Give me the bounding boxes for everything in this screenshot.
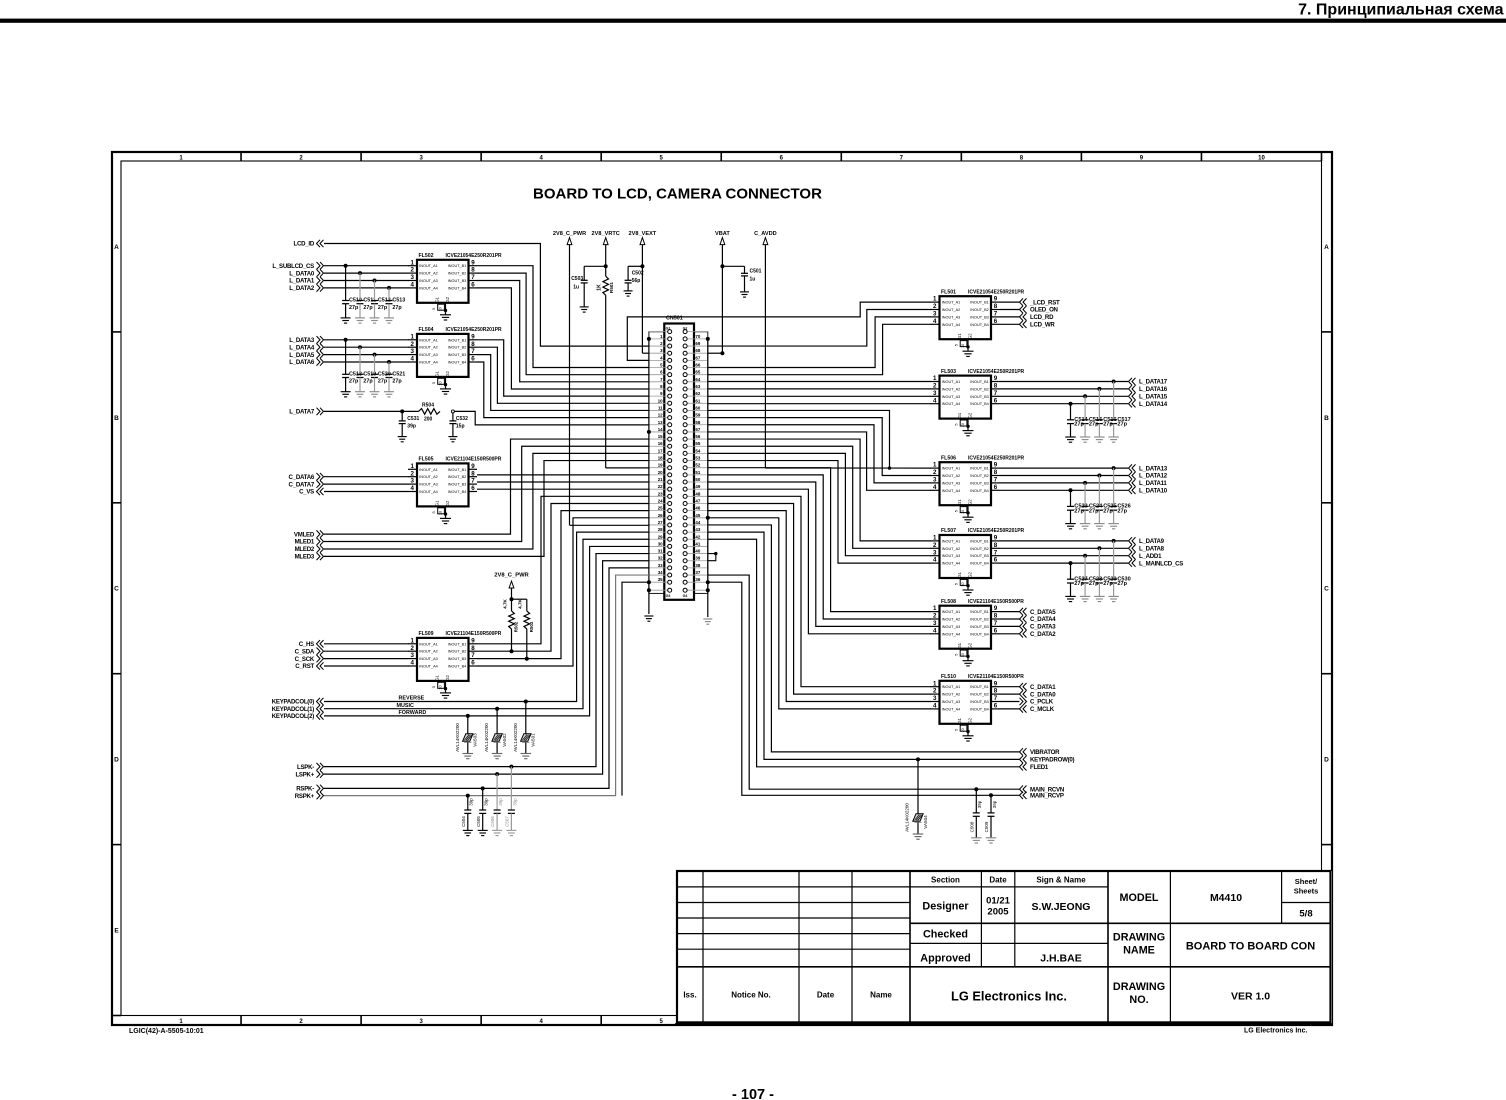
svg-text:INOUT_B4: INOUT_B4 bbox=[448, 665, 467, 669]
svg-text:_LCD_RST: _LCD_RST bbox=[1029, 299, 1060, 306]
svg-text:Approved: Approved bbox=[920, 953, 970, 965]
svg-text:C_HS: C_HS bbox=[299, 641, 314, 648]
svg-text:G1: G1 bbox=[957, 333, 962, 339]
node net at pin4 and FL501 input bbox=[627, 302, 931, 360]
svg-text:3: 3 bbox=[411, 348, 415, 355]
svg-text:L_DATA8: L_DATA8 bbox=[1139, 546, 1165, 553]
filter array FL504 ICVE21054E250R201PR bbox=[408, 327, 502, 386]
filter array FL509 ICVE21104E150R500PR bbox=[408, 631, 502, 690]
svg-text:R503: R503 bbox=[529, 621, 534, 632]
ground for C506 bbox=[492, 829, 502, 831]
svg-text:4: 4 bbox=[411, 356, 415, 363]
wire L_DATA12 bbox=[1000, 475, 1129, 477]
svg-text:10: 10 bbox=[438, 511, 442, 515]
svg-text:C521: C521 bbox=[392, 371, 405, 377]
svg-text:KEYPADCOL(0): KEYPADCOL(0) bbox=[272, 699, 314, 706]
svg-text:G1: G1 bbox=[435, 674, 440, 680]
svg-text:27p: 27p bbox=[1074, 422, 1084, 428]
svg-text:2005: 2005 bbox=[987, 907, 1009, 918]
CN501 right ground bus bbox=[706, 337, 710, 617]
svg-text:INOUT_A4: INOUT_A4 bbox=[942, 632, 961, 636]
svg-text:5: 5 bbox=[955, 344, 959, 346]
capacitor C506 39p bbox=[490, 774, 503, 830]
label REVERSE MUSIC FORWARD bbox=[397, 696, 427, 716]
svg-text:9: 9 bbox=[471, 637, 475, 644]
wire FL508 output C_DATA5 bbox=[1000, 611, 1020, 613]
svg-text:4.7K: 4.7K bbox=[502, 598, 507, 608]
wire 2V8_VEXT rail to pin3 bbox=[641, 251, 643, 353]
svg-text:68: 68 bbox=[695, 348, 700, 353]
svg-text:5/8: 5/8 bbox=[1299, 909, 1312, 920]
svg-text:LG Electronics Inc.: LG Electronics Inc. bbox=[951, 989, 1067, 1004]
capacitor C519 27p bbox=[357, 345, 377, 392]
filter array FL503 ICVE21054E250R201PR bbox=[931, 369, 1025, 428]
svg-text:Designer: Designer bbox=[922, 901, 969, 913]
wire VMLED to pin 15 bbox=[324, 439, 649, 534]
wire 2V8_VEXT into pin3 bbox=[642, 352, 649, 354]
svg-text:C_DATA6: C_DATA6 bbox=[289, 474, 315, 481]
svg-text:5: 5 bbox=[955, 424, 959, 426]
svg-text:FL501: FL501 bbox=[941, 289, 956, 295]
ground for C518 bbox=[341, 391, 351, 393]
wire RSPK+ to pin 34 bbox=[324, 575, 649, 796]
wire RSPK- to pin 33 bbox=[324, 568, 649, 789]
svg-text:A: A bbox=[114, 244, 119, 251]
svg-text:INOUT_A4: INOUT_A4 bbox=[419, 665, 438, 669]
svg-text:NO.: NO. bbox=[1129, 994, 1148, 1006]
svg-text:INOUT_B1: INOUT_B1 bbox=[448, 264, 467, 268]
svg-text:INOUT_B3: INOUT_B3 bbox=[448, 657, 467, 661]
svg-text:C_DATA0: C_DATA0 bbox=[1030, 691, 1056, 698]
wire L_DATA17 bbox=[1000, 381, 1129, 383]
svg-text:27: 27 bbox=[658, 520, 663, 525]
svg-text:VMLED: VMLED bbox=[294, 531, 315, 538]
ground for C508 bbox=[971, 837, 982, 839]
ground for C527 bbox=[1065, 595, 1076, 597]
svg-text:INOUT_B3: INOUT_B3 bbox=[970, 315, 989, 319]
svg-text:INOUT_B1: INOUT_B1 bbox=[970, 539, 989, 543]
svg-text:4: 4 bbox=[411, 282, 415, 289]
svg-text:14: 14 bbox=[658, 427, 663, 432]
svg-text:200: 200 bbox=[424, 417, 433, 423]
wire L_DATA10 bbox=[1000, 489, 1129, 491]
svg-text:19: 19 bbox=[658, 463, 663, 468]
varistor VA503 AVL14K02200 bbox=[455, 716, 478, 754]
ground for C530 bbox=[1108, 595, 1119, 597]
svg-text:C_SCK: C_SCK bbox=[295, 656, 315, 663]
ground for C512 bbox=[370, 317, 380, 319]
wire C_RST to FL509 pin 4 bbox=[324, 665, 409, 667]
svg-text:INOUT_A4: INOUT_A4 bbox=[942, 323, 961, 327]
svg-text:5: 5 bbox=[432, 686, 436, 688]
svg-text:39: 39 bbox=[695, 556, 700, 561]
svg-text:ICVE21104E150R500PR: ICVE21104E150R500PR bbox=[446, 457, 502, 463]
svg-text:C501: C501 bbox=[750, 269, 762, 275]
svg-text:INOUT_A2: INOUT_A2 bbox=[419, 272, 438, 276]
capacitor C503 1u bbox=[584, 265, 606, 267]
wire L_DATA11 bbox=[1000, 482, 1129, 484]
svg-text:G2: G2 bbox=[967, 717, 972, 723]
wire C_VS to FL505 pin 4 bbox=[324, 491, 409, 493]
svg-text:9: 9 bbox=[994, 535, 998, 542]
svg-text:B: B bbox=[1324, 415, 1329, 422]
svg-text:21: 21 bbox=[658, 477, 663, 482]
filter array FL502 ICVE21054E250R201PR bbox=[408, 253, 502, 312]
svg-text:Notice No.: Notice No. bbox=[731, 991, 771, 1000]
wire VBAT rail to pin68 bbox=[721, 251, 723, 353]
svg-text:INOUT_A3: INOUT_A3 bbox=[419, 279, 438, 283]
svg-text:INOUT_B3: INOUT_B3 bbox=[970, 481, 989, 485]
svg-text:C503: C503 bbox=[571, 276, 583, 282]
capacitor C527 27p bbox=[1067, 561, 1088, 596]
svg-text:FL503: FL503 bbox=[941, 369, 956, 375]
wire L_DATA15 bbox=[1000, 395, 1129, 397]
svg-text:27p: 27p bbox=[1074, 508, 1084, 514]
svg-text:1u: 1u bbox=[573, 285, 579, 291]
wire FL510 output C_DATA1 bbox=[1000, 686, 1020, 688]
svg-text:INOUT_A2: INOUT_A2 bbox=[942, 618, 961, 622]
frame row ticks and letters bbox=[112, 331, 121, 333]
capacitor C525 27p bbox=[1096, 474, 1117, 524]
svg-text:C: C bbox=[114, 586, 119, 593]
node R504 right terminal bbox=[451, 410, 454, 413]
ground for C514 bbox=[1065, 436, 1076, 438]
svg-text:3: 3 bbox=[933, 477, 937, 484]
capacitor C508 39p bbox=[969, 789, 982, 838]
svg-text:8: 8 bbox=[994, 542, 998, 549]
svg-text:45: 45 bbox=[695, 513, 700, 518]
svg-text:ICVE21104E150R500PR: ICVE21104E150R500PR bbox=[446, 631, 502, 637]
svg-text:ICVE21054E250R201PR: ICVE21054E250R201PR bbox=[968, 289, 1025, 295]
svg-text:15p: 15p bbox=[456, 423, 465, 429]
wire L_DATA13 bbox=[1000, 467, 1129, 469]
svg-text:64: 64 bbox=[695, 377, 700, 382]
svg-text:INOUT_B4: INOUT_B4 bbox=[970, 402, 989, 406]
wire VBAT junction at pin68 bbox=[708, 352, 723, 354]
svg-text:54: 54 bbox=[695, 448, 700, 453]
svg-text:3: 3 bbox=[411, 478, 415, 485]
ground for C520 bbox=[370, 391, 380, 393]
svg-text:L_DATA2: L_DATA2 bbox=[289, 285, 315, 292]
svg-text:3: 3 bbox=[933, 549, 937, 556]
wires pins 56-53 to FL507 inputs bbox=[708, 439, 931, 541]
svg-text:1: 1 bbox=[411, 333, 415, 340]
svg-text:9: 9 bbox=[994, 605, 998, 612]
svg-text:7: 7 bbox=[471, 652, 475, 659]
svg-text:1: 1 bbox=[933, 535, 937, 542]
svg-text:37: 37 bbox=[695, 570, 700, 575]
svg-text:27p: 27p bbox=[1089, 581, 1099, 587]
svg-text:6: 6 bbox=[994, 627, 998, 634]
svg-text:31: 31 bbox=[658, 549, 663, 554]
svg-text:9: 9 bbox=[994, 462, 998, 469]
svg-text:10: 10 bbox=[961, 344, 965, 348]
svg-text:G2: G2 bbox=[967, 572, 972, 578]
svg-text:Sheet/: Sheet/ bbox=[1295, 877, 1318, 886]
svg-text:2: 2 bbox=[933, 613, 937, 620]
svg-text:VBAT: VBAT bbox=[715, 231, 730, 237]
svg-text:12: 12 bbox=[658, 413, 663, 418]
capacitor C518 27p bbox=[342, 338, 362, 392]
svg-text:G1: G1 bbox=[957, 717, 962, 723]
svg-text:7: 7 bbox=[994, 477, 998, 484]
wire pin65 to FL501 pin4 bbox=[708, 324, 931, 374]
wire L_DATA16 bbox=[1000, 388, 1129, 390]
capacitor C504 39p bbox=[461, 796, 474, 831]
svg-text:INOUT_B2: INOUT_B2 bbox=[448, 346, 467, 350]
ground for VA504 bbox=[913, 833, 924, 835]
svg-text:INOUT_B4: INOUT_B4 bbox=[970, 632, 989, 636]
svg-text:L_DATA7: L_DATA7 bbox=[289, 409, 315, 416]
svg-text:INOUT_B1: INOUT_B1 bbox=[448, 642, 467, 646]
resistor R504 200 bbox=[419, 409, 441, 415]
svg-text:VA501: VA501 bbox=[531, 733, 536, 747]
svg-text:C507: C507 bbox=[505, 816, 510, 827]
svg-text:AVL14K02200: AVL14K02200 bbox=[455, 723, 460, 752]
svg-text:69: 69 bbox=[695, 341, 700, 346]
svg-text:16: 16 bbox=[658, 441, 663, 446]
svg-text:4: 4 bbox=[933, 557, 937, 564]
svg-text:VA504: VA504 bbox=[923, 815, 928, 829]
svg-text:8: 8 bbox=[994, 688, 998, 695]
svg-text:10: 10 bbox=[961, 582, 965, 586]
resistor R503 4.7K bbox=[518, 598, 534, 632]
svg-text:2: 2 bbox=[933, 688, 937, 695]
svg-text:INOUT_B1: INOUT_B1 bbox=[970, 610, 989, 614]
capacitor C528 27p bbox=[1082, 554, 1103, 597]
svg-text:7. Принципиальная схема: 7. Принципиальная схема bbox=[1298, 1, 1503, 18]
filter array FL508 ICVE21104E150R500PR bbox=[931, 599, 1025, 658]
capacitor C505 39p bbox=[476, 788, 489, 830]
svg-text:MUSIC: MUSIC bbox=[397, 703, 414, 709]
wire L_DATA6 to FL504 pin 4 bbox=[324, 361, 409, 363]
svg-text:INOUT_A1: INOUT_A1 bbox=[942, 301, 961, 305]
svg-text:5: 5 bbox=[955, 583, 959, 585]
svg-text:OLED_ON: OLED_ON bbox=[1030, 307, 1058, 314]
wire pin36 to MAIN_RCVP bbox=[708, 582, 1020, 795]
wire 2V8_VRTC into pin19 bbox=[606, 467, 649, 469]
svg-text:INOUT_B3: INOUT_B3 bbox=[448, 279, 467, 283]
svg-text:INOUT_A4: INOUT_A4 bbox=[942, 707, 961, 711]
wire FL501 output _LCD_RST bbox=[1000, 301, 1020, 303]
svg-text:LCD_RD: LCD_RD bbox=[1030, 314, 1054, 321]
svg-text:4: 4 bbox=[411, 660, 415, 667]
svg-text:DRAWING: DRAWING bbox=[1113, 981, 1165, 993]
svg-text:INOUT_B2: INOUT_B2 bbox=[970, 474, 989, 478]
svg-text:8: 8 bbox=[994, 469, 998, 476]
svg-text:INOUT_A1: INOUT_A1 bbox=[942, 685, 961, 689]
wire LCD_ID to pin2 bbox=[324, 244, 649, 347]
svg-text:C_DATA1: C_DATA1 bbox=[1030, 684, 1056, 691]
capacitor C516 27p bbox=[1096, 387, 1117, 437]
svg-text:INOUT_A3: INOUT_A3 bbox=[419, 483, 438, 487]
ground for FL503 bbox=[963, 426, 974, 436]
ground for C505 bbox=[478, 829, 488, 831]
svg-text:1: 1 bbox=[933, 296, 937, 303]
svg-text:7: 7 bbox=[994, 390, 998, 397]
svg-text:C509: C509 bbox=[984, 821, 989, 832]
wire FL501 output LCD_RD bbox=[1000, 316, 1020, 318]
svg-text:INOUT_A3: INOUT_A3 bbox=[942, 554, 961, 558]
title block bbox=[675, 871, 1332, 1024]
svg-text:27p: 27p bbox=[1117, 422, 1127, 428]
svg-text:3: 3 bbox=[933, 620, 937, 627]
svg-text:27p: 27p bbox=[1117, 581, 1127, 587]
svg-text:2: 2 bbox=[411, 470, 415, 477]
svg-text:39p: 39p bbox=[469, 798, 474, 806]
svg-text:7: 7 bbox=[994, 695, 998, 702]
svg-text:G2: G2 bbox=[967, 499, 972, 505]
svg-text:G1: G1 bbox=[666, 327, 671, 331]
wire pin43 to KEYPADROW(0) bbox=[708, 532, 1020, 759]
svg-text:G2: G2 bbox=[967, 333, 972, 339]
header rule bbox=[0, 19, 1506, 23]
svg-text:L_DATA17: L_DATA17 bbox=[1139, 379, 1168, 386]
svg-text:C_DATA3: C_DATA3 bbox=[1030, 624, 1056, 631]
svg-text:10: 10 bbox=[961, 653, 965, 657]
svg-text:C_DATA7: C_DATA7 bbox=[289, 481, 315, 488]
svg-text:G1: G1 bbox=[957, 412, 962, 418]
svg-text:6: 6 bbox=[994, 397, 998, 404]
svg-text:INOUT_A1: INOUT_A1 bbox=[419, 468, 438, 472]
capacitor C524 27p bbox=[1082, 481, 1104, 524]
filter array FL510 ICVE21104E150R500PR bbox=[931, 674, 1025, 733]
svg-text:G1: G1 bbox=[435, 296, 440, 302]
wire L_MAINLCD_CS bbox=[1000, 562, 1129, 564]
wire L_DATA0 to FL502 pin 2 bbox=[324, 272, 409, 274]
wire KEYPADCOL(1) to pin29 bbox=[324, 539, 649, 708]
ground for FL504 bbox=[440, 385, 451, 395]
svg-text:24: 24 bbox=[658, 498, 663, 503]
svg-text:27p: 27p bbox=[1103, 422, 1113, 428]
wire L_DATA14 bbox=[1000, 403, 1129, 405]
svg-text:S.W.JEONG: S.W.JEONG bbox=[1032, 901, 1091, 913]
wires FL509 outputs to CN501 pins 23-26 bbox=[477, 496, 649, 643]
svg-text:MAIN_RCVP: MAIN_RCVP bbox=[1030, 793, 1064, 800]
svg-text:1: 1 bbox=[933, 375, 937, 382]
svg-text:ICVE21104E150R500PR: ICVE21104E150R500PR bbox=[968, 674, 1024, 680]
capacitor C520 27p bbox=[371, 353, 391, 392]
wire L_SUBLCD_CS to FL502 pin 1 bbox=[324, 265, 409, 267]
svg-text:27p: 27p bbox=[363, 379, 373, 385]
svg-text:9: 9 bbox=[471, 333, 475, 340]
ground for FL506 bbox=[963, 513, 974, 523]
svg-text:8: 8 bbox=[994, 383, 998, 390]
wire FL501 output OLED_ON bbox=[1000, 309, 1020, 311]
svg-text:C_PCLK: C_PCLK bbox=[1030, 699, 1054, 706]
svg-text:ICVE21104E150R500PR: ICVE21104E150R500PR bbox=[968, 599, 1024, 605]
svg-text:34: 34 bbox=[658, 570, 663, 575]
wire MLED3 to pin 18 bbox=[324, 461, 649, 557]
capacitor C515 27p bbox=[1082, 394, 1103, 437]
svg-text:INOUT_B1: INOUT_B1 bbox=[448, 468, 467, 472]
svg-text:3: 3 bbox=[933, 695, 937, 702]
capacitor C532 15p bbox=[449, 413, 468, 437]
svg-text:59: 59 bbox=[695, 413, 700, 418]
wire FL505 outputs to CN501 pins 20-22 bbox=[477, 474, 649, 476]
wire 2V8_C_PWR into pin27 bbox=[570, 524, 649, 526]
svg-text:7: 7 bbox=[994, 549, 998, 556]
svg-text:29: 29 bbox=[658, 534, 663, 539]
svg-text:INOUT_B4: INOUT_B4 bbox=[448, 490, 467, 494]
wire pin42 to FLED1 bbox=[708, 539, 1020, 767]
ground for C531 bbox=[398, 436, 407, 438]
svg-text:9: 9 bbox=[471, 259, 475, 266]
wire FL502 outputs to pins 5-8 bbox=[477, 266, 649, 368]
svg-text:C_DATA5: C_DATA5 bbox=[1030, 609, 1056, 616]
svg-text:27p: 27p bbox=[1089, 422, 1099, 428]
svg-text:G1: G1 bbox=[435, 370, 440, 376]
svg-text:Iss.: Iss. bbox=[683, 991, 696, 1000]
svg-text:39p: 39p bbox=[407, 423, 416, 429]
svg-text:40: 40 bbox=[695, 549, 700, 554]
svg-text:30: 30 bbox=[658, 541, 663, 546]
svg-text:L_DATA4: L_DATA4 bbox=[289, 344, 315, 351]
svg-text:10: 10 bbox=[438, 685, 442, 689]
wire L_DATA2 to FL502 pin 4 bbox=[324, 287, 409, 289]
svg-text:41: 41 bbox=[695, 541, 700, 546]
svg-text:AVL14K02200: AVL14K02200 bbox=[905, 803, 910, 832]
svg-text:C532: C532 bbox=[456, 416, 468, 422]
svg-text:1: 1 bbox=[411, 259, 415, 266]
ground for C524 bbox=[1080, 523, 1091, 525]
wire C_HS to FL509 pin 1 bbox=[324, 643, 409, 645]
svg-text:6: 6 bbox=[471, 356, 475, 363]
svg-text:39p: 39p bbox=[977, 800, 982, 808]
svg-text:7: 7 bbox=[471, 478, 475, 485]
svg-text:2: 2 bbox=[933, 469, 937, 476]
wire pin37 to MAIN_RCVN bbox=[708, 575, 1020, 789]
svg-text:8: 8 bbox=[471, 470, 475, 477]
svg-text:INOUT_B2: INOUT_B2 bbox=[970, 387, 989, 391]
svg-text:3: 3 bbox=[933, 390, 937, 397]
wire pin35 riser bbox=[622, 582, 649, 795]
svg-text:ICVE21054E250R201PR: ICVE21054E250R201PR bbox=[446, 253, 503, 259]
ground for C511 bbox=[355, 317, 365, 319]
svg-text:INOUT_A3: INOUT_A3 bbox=[942, 700, 961, 704]
svg-text:9: 9 bbox=[994, 296, 998, 303]
wire FL510 output C_PCLK bbox=[1000, 701, 1020, 703]
svg-text:36: 36 bbox=[695, 577, 700, 582]
wires pins 60-57 to FL506 inputs bbox=[708, 410, 890, 468]
svg-text:2V8_VEXT: 2V8_VEXT bbox=[629, 231, 657, 237]
svg-text:INOUT_A2: INOUT_A2 bbox=[942, 693, 961, 697]
svg-text:Sign & Name: Sign & Name bbox=[1036, 875, 1086, 884]
svg-text:AVL14K02200: AVL14K02200 bbox=[513, 723, 518, 752]
svg-text:VA502: VA502 bbox=[502, 733, 507, 747]
connector CN501 pins and numbers bbox=[649, 327, 708, 599]
svg-text:INOUT_A4: INOUT_A4 bbox=[942, 489, 961, 493]
svg-text:35: 35 bbox=[658, 577, 663, 582]
filter array FL501 ICVE21054E250R201PR bbox=[931, 289, 1025, 348]
capacitor C521 27p bbox=[386, 360, 406, 392]
svg-text:6: 6 bbox=[994, 484, 998, 491]
capacitor C512 27p bbox=[371, 279, 391, 318]
svg-text:L_DATA1: L_DATA1 bbox=[289, 278, 315, 285]
svg-text:Checked: Checked bbox=[923, 929, 968, 941]
svg-text:C531: C531 bbox=[407, 416, 419, 422]
ground for FL510 bbox=[963, 732, 974, 742]
svg-text:D: D bbox=[1324, 757, 1329, 764]
svg-text:15: 15 bbox=[658, 434, 663, 439]
wire C_AVDD rail to FL506 input bbox=[764, 251, 766, 468]
svg-text:56: 56 bbox=[695, 434, 700, 439]
svg-text:G2: G2 bbox=[445, 296, 450, 302]
svg-text:Date: Date bbox=[817, 991, 835, 1000]
ground under CN501 left bbox=[644, 615, 653, 617]
svg-text:L_DATA5: L_DATA5 bbox=[289, 352, 315, 359]
svg-text:C513: C513 bbox=[392, 298, 405, 304]
